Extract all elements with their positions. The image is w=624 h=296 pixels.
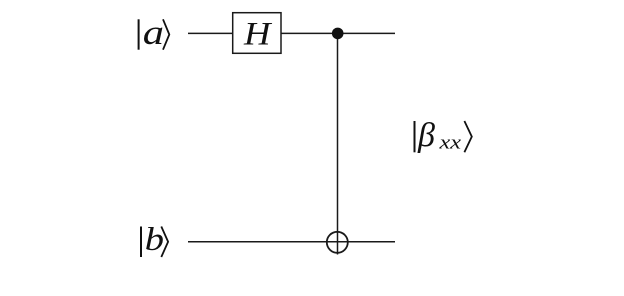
label ket beta_xx: bar <box>414 121 416 152</box>
svg-text:β: β <box>417 117 435 154</box>
label ket a: bar <box>138 19 140 49</box>
wire: bottom qubit line <box>188 241 395 243</box>
node control dot <box>332 28 344 40</box>
svg-text:H: H <box>243 17 273 53</box>
svg-text:xx: xx <box>438 133 461 154</box>
label ket b: bar <box>140 227 142 258</box>
label ket beta_xx: angle bracket <box>464 121 471 152</box>
label ket a: angle bracket <box>163 19 169 49</box>
wire: top qubit line <box>188 32 395 34</box>
gate H box U1 <box>233 13 281 54</box>
svg-text:b: b <box>145 221 164 258</box>
label ket b: angle bracket <box>161 227 168 258</box>
wire: vertical CNOT connector <box>337 33 339 254</box>
gate CNOT target circle <box>327 232 348 253</box>
svg-text:a: a <box>143 13 164 52</box>
